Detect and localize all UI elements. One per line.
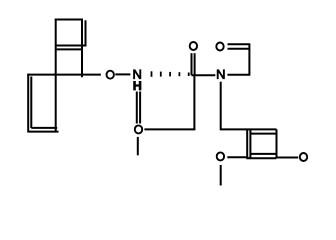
atom label N1 — [134, 70, 141, 79]
horizontal bond into ring D / ring D top edge — [221, 128, 277, 130]
ring C outer bottom edge — [28, 131, 58, 133]
long horizontal bond to O1 — [27, 74, 101, 76]
ring D outer left edge — [246, 129, 248, 158]
ring C inner left double-bond line — [30, 77, 32, 129]
atom label O4 (below N1) — [135, 125, 142, 133]
aldehyde C=O line 2 (lower) — [228, 48, 249, 50]
ring D inner left line — [249, 129, 251, 158]
bond O1 to N1 — [115, 73, 130, 75]
atom label O5 (methoxy oxygen) — [217, 152, 224, 160]
ring D inner bottom double-bond line — [250, 153, 276, 155]
ring A outer double-bond line (right) — [85, 20, 87, 46]
ring D right edge — [276, 129, 278, 158]
ring C inner bottom double-bond line — [31, 127, 57, 129]
CH2 vertical up to aldehyde C — [248, 44, 250, 74]
ring A top edge — [55, 19, 83, 21]
ring A/B right edge — [81, 20, 83, 78]
C=O double bond line 2 (central) — [194, 53, 196, 75]
ring A bottom edge — [56, 48, 83, 50]
bond ring D to O6 — [277, 157, 298, 159]
methyl stick below O4 — [137, 137, 139, 155]
hashed stereo bond N1 to C-alpha — [152, 71, 189, 77]
aldehyde C=O line 1 (upper) — [228, 43, 251, 45]
ring A left vertical (shared long edge) — [55, 19, 57, 132]
C=O double bond line 1 (central) — [191, 53, 193, 75]
ring D inner top double-bond line — [250, 133, 276, 135]
methyl stick below O5 — [220, 165, 222, 186]
ring C outer left edge — [27, 74, 29, 133]
atom label O3 (aldehyde oxygen) — [216, 43, 223, 51]
bond C-alpha to N2 — [192, 74, 216, 76]
atom label N2 — [217, 70, 224, 79]
ring A inner double-bond line — [56, 45, 87, 47]
ring D outer bottom edge — [246, 157, 276, 159]
N=O double bond line 2 — [139, 92, 141, 124]
atom label H on N1 — [134, 81, 141, 90]
bond O5 to ring D — [227, 156, 248, 158]
bond N2 to CH2 — [227, 74, 250, 76]
N=O double bond line 1 — [136, 92, 138, 124]
atom label O6 (right oxygen) — [300, 153, 307, 161]
chain vertical up to C-alpha — [193, 75, 195, 130]
bond O4 to chain corner — [144, 128, 195, 130]
N2 vertical down-leg — [220, 82, 222, 131]
atom label O2 (central carbonyl) — [190, 42, 197, 50]
atom label O1 (ether oxygen) — [107, 71, 114, 79]
